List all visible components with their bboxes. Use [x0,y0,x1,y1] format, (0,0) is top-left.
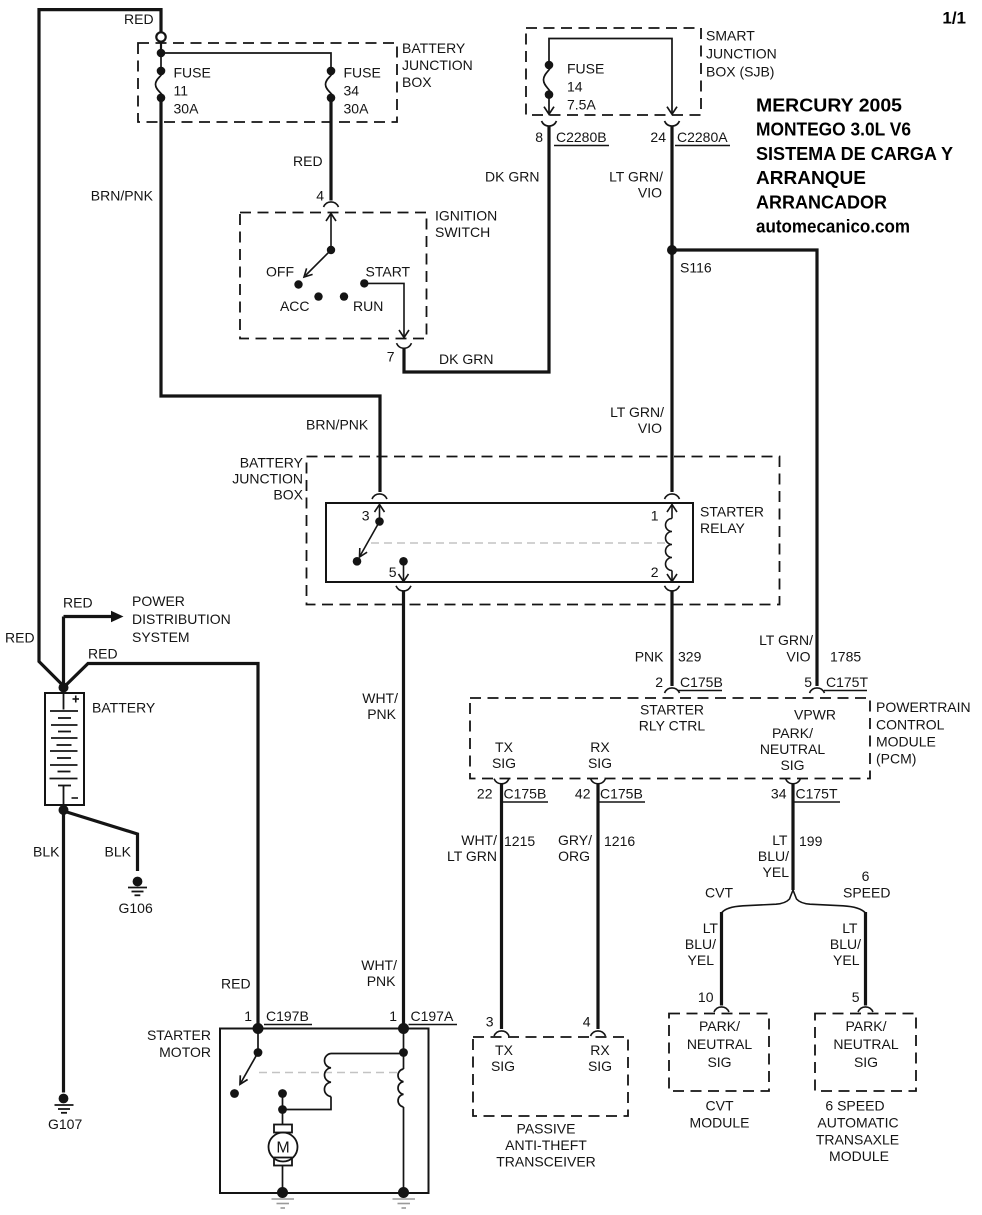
svg-text:DK GRN: DK GRN [439,351,493,367]
svg-text:7.5A: 7.5A [567,97,596,113]
svg-text:AUTOMATIC: AUTOMATIC [817,1115,898,1131]
svg-text:LT GRN: LT GRN [447,848,497,864]
svg-text:C175B: C175B [504,786,547,802]
svg-text:PARK/: PARK/ [846,1018,887,1034]
svg-text:MODULE: MODULE [690,1115,750,1131]
svg-text:LT: LT [703,920,719,936]
svg-text:POWERTRAIN: POWERTRAIN [876,699,971,715]
svg-text:5: 5 [804,674,812,690]
svg-text:STARTER: STARTER [147,1027,211,1043]
svg-text:VIO: VIO [638,185,662,201]
svg-text:SIG: SIG [588,755,612,771]
svg-text:TRANSAXLE: TRANSAXLE [816,1132,899,1148]
svg-text:MERCURY 2005: MERCURY 2005 [756,96,902,116]
svg-text:JUNCTION: JUNCTION [232,471,303,487]
svg-text:FUSE: FUSE [344,65,381,81]
svg-text:automecanico.com: automecanico.com [756,217,910,237]
svg-text:RED: RED [221,976,251,992]
svg-text:VIO: VIO [638,420,662,436]
svg-text:M: M [276,1140,289,1157]
svg-text:34: 34 [344,83,360,99]
svg-text:MOTOR: MOTOR [159,1044,211,1060]
svg-text:WHT/: WHT/ [362,690,398,706]
svg-text:5: 5 [389,564,397,580]
svg-text:BOX: BOX [273,487,303,503]
svg-text:1: 1 [389,1008,397,1024]
svg-text:IGNITION: IGNITION [435,208,497,224]
svg-text:3: 3 [486,1014,494,1030]
svg-text:14: 14 [567,79,583,95]
svg-text:24: 24 [650,129,666,145]
svg-text:1: 1 [651,508,659,524]
svg-text:VIO: VIO [786,649,810,665]
svg-text:SWITCH: SWITCH [435,224,490,240]
svg-text:PNK: PNK [367,706,396,722]
svg-text:LT GRN/: LT GRN/ [759,632,813,648]
svg-text:1785: 1785 [830,649,861,665]
svg-text:2: 2 [651,564,659,580]
svg-text:SIG: SIG [491,1058,515,1074]
svg-text:ARRANCADOR: ARRANCADOR [756,192,887,212]
svg-text:SIG: SIG [492,755,516,771]
svg-text:C175T: C175T [826,674,868,690]
svg-text:VPWR: VPWR [794,707,836,723]
svg-text:11: 11 [174,83,189,99]
svg-text:PNK: PNK [367,973,396,989]
svg-text:SISTEMA DE CARGA Y: SISTEMA DE CARGA Y [756,144,953,164]
svg-text:SYSTEM: SYSTEM [132,629,190,645]
svg-text:7: 7 [387,349,395,365]
svg-text:BLK: BLK [33,844,60,860]
svg-text:CONTROL: CONTROL [876,717,945,733]
svg-text:C197A: C197A [411,1008,454,1024]
svg-text:RED: RED [88,646,118,662]
svg-text:6: 6 [862,868,870,884]
svg-text:POWER: POWER [132,593,185,609]
svg-text:RX: RX [590,739,610,755]
svg-text:S116: S116 [680,260,712,276]
svg-text:LT: LT [842,920,858,936]
svg-text:SIG: SIG [588,1058,612,1074]
svg-text:PARK/: PARK/ [772,725,813,741]
svg-text:5: 5 [852,989,860,1005]
svg-text:C197B: C197B [266,1008,309,1024]
svg-text:BLU/: BLU/ [685,936,716,952]
svg-text:YEL: YEL [688,952,715,968]
svg-text:SIG: SIG [854,1054,878,1070]
svg-text:42: 42 [575,786,591,802]
svg-text:1/1: 1/1 [942,9,966,28]
svg-text:LT: LT [772,832,788,848]
svg-text:G107: G107 [48,1116,82,1132]
svg-text:YEL: YEL [763,864,790,880]
svg-text:BLU/: BLU/ [830,936,861,952]
svg-text:DK GRN: DK GRN [485,169,539,185]
svg-text:C175B: C175B [680,674,723,690]
svg-text:SIG: SIG [780,757,804,773]
svg-text:C175T: C175T [796,786,838,802]
svg-text:PNK: PNK [635,649,664,665]
svg-text:RED: RED [63,595,93,611]
svg-text:10: 10 [698,989,714,1005]
svg-text:WHT/: WHT/ [461,832,497,848]
svg-text:BOX: BOX [402,74,432,90]
svg-text:30A: 30A [174,101,200,117]
svg-text:MODULE: MODULE [876,734,936,750]
svg-text:C175B: C175B [600,786,643,802]
svg-text:DISTRIBUTION: DISTRIBUTION [132,611,231,627]
svg-text:YEL: YEL [833,952,860,968]
svg-text:BLU/: BLU/ [758,848,789,864]
svg-text:ACC: ACC [280,298,310,314]
svg-text:BRN/PNK: BRN/PNK [91,188,154,204]
svg-text:WHT/: WHT/ [361,957,397,973]
svg-text:2: 2 [655,674,663,690]
svg-text:BATTERY: BATTERY [92,700,156,716]
svg-text:BLK: BLK [105,844,132,860]
svg-text:GRY/: GRY/ [558,832,592,848]
svg-text:3: 3 [362,508,370,524]
svg-text:BATTERY: BATTERY [240,455,304,471]
svg-text:BOX (SJB): BOX (SJB) [706,64,774,80]
svg-text:JUNCTION: JUNCTION [402,57,473,73]
svg-text:C2280B: C2280B [556,129,607,145]
svg-text:ORG: ORG [558,848,590,864]
svg-text:SIG: SIG [707,1054,731,1070]
svg-text:PASSIVE: PASSIVE [517,1121,576,1137]
svg-text:RX: RX [590,1042,610,1058]
svg-text:1: 1 [244,1008,252,1024]
svg-text:MODULE: MODULE [829,1148,889,1164]
svg-text:RED: RED [5,630,35,646]
svg-text:NEUTRAL: NEUTRAL [760,741,826,757]
svg-text:(PCM): (PCM) [876,751,916,767]
svg-text:329: 329 [678,649,702,665]
svg-text:34: 34 [771,786,787,802]
svg-text:SPEED: SPEED [843,885,890,901]
svg-text:TX: TX [495,1042,514,1058]
svg-text:RED: RED [124,11,154,27]
svg-text:199: 199 [799,833,823,849]
svg-text:RLY CTRL: RLY CTRL [639,718,706,734]
svg-text:RUN: RUN [353,298,383,314]
svg-text:TX: TX [495,739,514,755]
svg-text:LT GRN/: LT GRN/ [610,404,664,420]
svg-text:ANTI-THEFT: ANTI-THEFT [505,1137,587,1153]
svg-text:22: 22 [477,786,493,802]
svg-text:4: 4 [583,1014,591,1030]
svg-text:6 SPEED: 6 SPEED [825,1098,884,1114]
svg-text:JUNCTION: JUNCTION [706,46,777,62]
svg-text:PARK/: PARK/ [699,1018,740,1034]
svg-text:RELAY: RELAY [700,520,746,536]
svg-text:G106: G106 [119,900,153,916]
svg-text:TRANSCEIVER: TRANSCEIVER [496,1154,596,1170]
svg-text:NEUTRAL: NEUTRAL [833,1036,899,1052]
svg-text:NEUTRAL: NEUTRAL [687,1036,753,1052]
svg-text:FUSE: FUSE [567,61,604,77]
svg-text:MONTEGO 3.0L V6: MONTEGO 3.0L V6 [756,120,911,140]
svg-text:CVT: CVT [706,1098,734,1114]
svg-text:C2280A: C2280A [677,129,728,145]
svg-text:OFF: OFF [266,264,294,280]
svg-text:1215: 1215 [504,833,535,849]
svg-text:BRN/PNK: BRN/PNK [306,417,369,433]
svg-text:LT GRN/: LT GRN/ [609,169,663,185]
svg-text:RED: RED [293,153,323,169]
svg-text:FUSE: FUSE [174,65,211,81]
svg-text:START: START [366,264,411,280]
svg-text:STARTER: STARTER [700,504,764,520]
svg-text:1216: 1216 [604,833,635,849]
svg-text:STARTER: STARTER [640,702,704,718]
svg-text:4: 4 [316,188,324,204]
svg-text:SMART: SMART [706,28,755,44]
svg-text:30A: 30A [344,101,370,117]
svg-text:8: 8 [535,129,543,145]
svg-text:ARRANQUE: ARRANQUE [756,168,866,188]
svg-text:BATTERY: BATTERY [402,40,466,56]
svg-text:CVT: CVT [705,885,733,901]
